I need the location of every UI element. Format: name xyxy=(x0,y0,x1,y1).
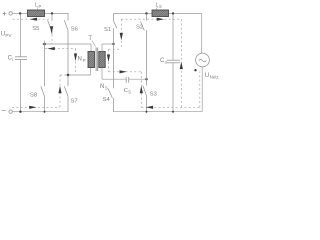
capacitor C_i xyxy=(15,14,27,112)
node junction Co top xyxy=(172,12,174,14)
arrow right on B3 xyxy=(120,70,128,73)
wire top rail left xyxy=(12,13,68,15)
node junction S3 bottom xyxy=(146,111,148,113)
node plus input terminal xyxy=(3,12,13,16)
arrow down on B8 xyxy=(107,55,110,63)
svg-text:S2: S2 xyxy=(136,24,143,30)
arrow down on A4 xyxy=(74,54,77,62)
svg-text:P: P xyxy=(83,58,86,63)
node junction S2 top xyxy=(145,12,147,14)
wire bottom rail right xyxy=(114,111,203,113)
wire dashed current path B7 xyxy=(199,72,201,108)
capacitor C_o xyxy=(167,14,180,112)
svg-text:T: T xyxy=(88,36,92,42)
wire dashed current path A5 xyxy=(59,75,61,107)
wire dashed current path A3 xyxy=(45,48,76,50)
switch S2 xyxy=(141,14,147,80)
arrow current down on S5 leg xyxy=(50,26,53,34)
svg-text:Netz: Netz xyxy=(210,75,219,80)
svg-text:S5: S5 xyxy=(32,26,39,32)
svg-text:S4: S4 xyxy=(103,97,111,103)
svg-text:S8: S8 xyxy=(30,92,37,98)
node junction Ci top xyxy=(19,12,21,14)
svg-text:N: N xyxy=(100,84,104,90)
transformer T secondary winding xyxy=(99,52,105,68)
arrow down on B2 xyxy=(120,33,123,41)
wire dashed current path B4 xyxy=(140,72,142,108)
switch S7 xyxy=(64,75,68,112)
arrow right on A6 xyxy=(29,106,37,109)
svg-text:S: S xyxy=(105,85,108,90)
node junction Co bottom xyxy=(172,111,174,113)
svg-text:PV: PV xyxy=(5,33,12,38)
wire dashed current path B jog xyxy=(109,48,122,50)
wire dashed current path B1 xyxy=(121,18,181,20)
svg-text:P: P xyxy=(39,4,42,9)
switch S6 xyxy=(64,13,68,75)
label N_S xyxy=(100,84,108,91)
node junction S5 top xyxy=(51,12,53,14)
source U_Netz AC grid xyxy=(196,53,210,67)
wire grid branch xyxy=(201,14,204,112)
svg-text:i: i xyxy=(12,57,13,62)
label C_s xyxy=(124,88,131,95)
wire S5 leg lower dashed xyxy=(51,35,53,45)
transformer T core xyxy=(96,48,98,72)
wire dashed current path B3 xyxy=(109,71,142,73)
wire dashed current path A4 xyxy=(75,49,77,74)
wire secondary bottom xyxy=(102,68,147,80)
wire dashed current path B5 xyxy=(141,106,200,108)
svg-text:S1: S1 xyxy=(104,27,111,33)
node junction S2 S3 midpoint xyxy=(145,78,147,80)
svg-text:S: S xyxy=(128,89,131,94)
wire dashed current path A5 top jog xyxy=(60,74,67,76)
wire dashed current path B6 xyxy=(180,19,182,107)
switch S3 xyxy=(143,79,147,112)
label C_o xyxy=(160,58,168,65)
node junction S8 top xyxy=(43,43,46,46)
switch S1 xyxy=(113,14,117,45)
wire dashed current path A6 xyxy=(12,106,60,108)
svg-text:N: N xyxy=(78,57,82,63)
arrow left on B5 xyxy=(146,106,154,109)
node junction S6 S7 midpoint xyxy=(67,74,70,77)
arrow right on B1 xyxy=(157,18,165,21)
label C_i xyxy=(8,56,14,63)
wire dashed current path A1 xyxy=(13,18,50,20)
wire dashed current path B2 xyxy=(120,19,122,49)
svg-text:S: S xyxy=(159,4,162,9)
wire S8 top stub xyxy=(44,41,46,44)
label U_Netz xyxy=(205,72,219,80)
arrow up on B4 xyxy=(140,86,143,94)
arrow left on A1 xyxy=(30,18,37,21)
arrow left on A3 xyxy=(47,47,55,50)
label L_P xyxy=(35,3,42,10)
wire dashed current path B8 xyxy=(108,49,110,72)
node measurement dot U_Netz xyxy=(194,69,196,71)
node minus input terminal xyxy=(2,110,13,113)
inductor L_P xyxy=(28,7,45,16)
wire top rail right xyxy=(114,13,153,15)
label N_P xyxy=(78,57,86,64)
label U_PV xyxy=(1,30,13,38)
svg-text:S6: S6 xyxy=(71,27,78,33)
arrow up on A5 xyxy=(58,86,61,94)
arrow up on B6 xyxy=(180,62,183,70)
capacitor C_s xyxy=(126,77,129,83)
inductor L_S xyxy=(152,7,169,17)
wire bottom rail left xyxy=(12,111,68,113)
switch S8 xyxy=(41,44,45,112)
svg-text:S7: S7 xyxy=(71,98,78,104)
wire primary bottom xyxy=(68,68,91,76)
node junction Ci bottom xyxy=(19,111,21,113)
label L_S xyxy=(156,2,163,8)
svg-text:S3: S3 xyxy=(150,92,157,98)
wire primary top xyxy=(43,44,92,52)
switch S5 xyxy=(48,14,52,35)
transformer T primary winding xyxy=(88,52,95,68)
wire secondary top xyxy=(102,44,114,52)
switch S4 xyxy=(108,44,113,112)
node junction S1 S4 midpoint xyxy=(112,43,114,45)
label T with leader xyxy=(88,36,95,47)
node junction S8 bottom xyxy=(44,111,46,113)
